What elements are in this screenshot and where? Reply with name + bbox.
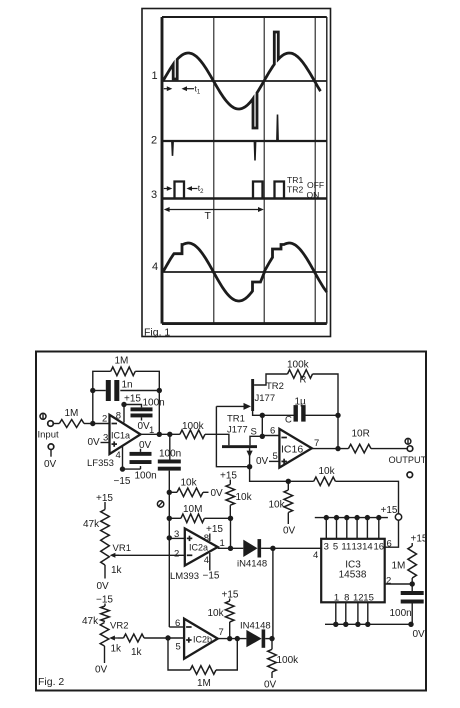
- timebase gridline 3: [314, 17, 316, 324]
- trace 3 pulse 3: [275, 182, 285, 198]
- svg-text:−15: −15: [203, 571, 220, 582]
- svg-text:Fig. 2: Fig. 2: [38, 676, 64, 688]
- svg-text:C: C: [285, 415, 292, 426]
- wire R to output rail: [313, 374, 339, 449]
- svg-text:J177: J177: [255, 393, 276, 404]
- svg-text:VR2: VR2: [110, 621, 128, 632]
- wire IC2b output: [218, 638, 247, 640]
- svg-text:6: 6: [270, 426, 275, 437]
- svg-text:100n: 100n: [390, 608, 412, 619]
- svg-text:5: 5: [333, 542, 338, 553]
- wire pin 3 (IC2a): [169, 537, 185, 539]
- node pin3 tap: [167, 535, 172, 540]
- node pin4: [120, 466, 125, 471]
- trace 3 pulse 2: [253, 182, 263, 198]
- wire pin 3: [101, 442, 110, 444]
- svg-text:0V: 0V: [256, 456, 269, 467]
- resistor 1k (series): [124, 634, 145, 642]
- plus sign IC1a: [112, 443, 118, 445]
- svg-text:Input: Input: [38, 430, 59, 441]
- node waveform marker (circled slash): [157, 501, 163, 507]
- svg-text:3: 3: [324, 542, 329, 553]
- TR2 source lead: [253, 411, 263, 415]
- svg-text:IC2b: IC2b: [193, 635, 212, 645]
- wire signal rail down: [168, 471, 170, 627]
- node RC: [410, 581, 415, 586]
- IC3 top pin labels 3 5 11 13 14 16: [324, 542, 384, 553]
- wire VR1 to 0V: [104, 565, 106, 579]
- svg-text:6: 6: [175, 618, 180, 629]
- wire +15 stub: [229, 480, 231, 485]
- capacitor 100n (pin4 decoupling): [130, 452, 152, 456]
- wire 1M feedback right leg: [216, 639, 237, 670]
- svg-text:0V: 0V: [97, 581, 110, 592]
- IC IC3 14538 box: [321, 539, 385, 603]
- svg-text:10k: 10k: [181, 478, 198, 489]
- capacitor 1n: [106, 380, 111, 401]
- potentiometer VR2: [100, 623, 109, 647]
- wire pin4 node to decoupling cap: [123, 468, 141, 470]
- svg-text:VR1: VR1: [113, 543, 131, 554]
- svg-text:1: 1: [334, 593, 339, 604]
- svg-text:0V: 0V: [283, 526, 296, 537]
- TR1 gate lead with arrow: [247, 448, 253, 467]
- trace 3 baseline: [162, 197, 327, 199]
- input waveform marker (circled 1): [40, 413, 46, 419]
- svg-text:10k: 10k: [208, 608, 225, 619]
- node pin5 (IC2b): [165, 635, 170, 640]
- node +15 pin8: [121, 402, 126, 407]
- wire pin 5 (IC16): [269, 460, 279, 462]
- op-amp IC16: [279, 429, 311, 468]
- svg-text:10R: 10R: [352, 429, 370, 440]
- svg-text:iN4148: iN4148: [237, 559, 267, 570]
- svg-text:1M: 1M: [115, 356, 129, 367]
- node pin2 junction: [90, 421, 95, 426]
- trace 2 spike b: [254, 142, 255, 161]
- resistor 100k R: [288, 370, 313, 379]
- svg-text:0V: 0V: [211, 488, 224, 499]
- svg-text:15: 15: [363, 593, 374, 604]
- resistor 10k (IC2b pullup): [225, 601, 234, 622]
- svg-text:47k: 47k: [82, 616, 99, 627]
- wire +15 stub (IC2b): [229, 599, 231, 602]
- node trigger: [270, 546, 275, 551]
- op-amp IC2b: [184, 619, 218, 659]
- svg-text:TR1: TR1: [287, 175, 303, 185]
- svg-text:IC1a: IC1a: [111, 431, 130, 441]
- VR2 wiper arrow: [109, 636, 118, 641]
- svg-text:2: 2: [174, 549, 179, 560]
- svg-text:1n: 1n: [122, 380, 133, 391]
- svg-text:0V: 0V: [264, 680, 277, 691]
- IC3 top supply rail: [315, 517, 388, 519]
- svg-text:1µ: 1µ: [295, 397, 307, 408]
- svg-text:+15: +15: [381, 505, 398, 516]
- node output coupling: [167, 432, 172, 437]
- diode IN4148 (IC2a): [243, 540, 257, 557]
- svg-text:1k: 1k: [111, 565, 123, 576]
- svg-text:1M: 1M: [197, 678, 211, 689]
- node 10M tap: [167, 516, 172, 521]
- svg-text:TR2: TR2: [266, 381, 284, 392]
- node C left: [260, 413, 265, 418]
- wire 10k to IC3 pin6: [335, 481, 398, 514]
- wire C leads: [262, 414, 293, 416]
- svg-text:4: 4: [116, 450, 121, 461]
- svg-text:J177: J177: [227, 425, 248, 436]
- timebase gridline 2: [263, 17, 265, 324]
- node pin6 (IC16): [260, 434, 265, 439]
- node 10k tap: [167, 490, 172, 495]
- node diode2 cathode: [269, 636, 274, 641]
- wire diode2 to node: [265, 638, 273, 640]
- wire gate node down to 10k run: [250, 467, 314, 482]
- minus sign IC2a: [187, 554, 193, 556]
- wire 100k to TR1 drain: [205, 434, 229, 445]
- svg-text:100k: 100k: [277, 655, 300, 666]
- node 10k pulldown tap: [286, 479, 291, 484]
- wire 100k to 0V: [271, 672, 273, 678]
- svg-text:4: 4: [152, 261, 158, 273]
- wire gate rail (TR2 gate to node): [216, 406, 249, 466]
- resistor 100k (IC1a out): [180, 430, 205, 439]
- resistor 1M (feedback): [111, 367, 136, 376]
- resistor 10M: [181, 514, 205, 523]
- wire +15 to 47k: [104, 502, 106, 510]
- svg-text:13: 13: [352, 542, 363, 553]
- svg-text:14: 14: [362, 542, 373, 553]
- wire diode to pin4 node: [261, 547, 321, 549]
- wire trigger node down: [272, 548, 274, 638]
- svg-text:1k: 1k: [111, 644, 123, 655]
- svg-text:4: 4: [204, 555, 209, 566]
- resistor 1M (IC3 timing): [408, 546, 417, 578]
- resistor 1M (IC2b feedback): [190, 666, 216, 675]
- wire pin 6 (IC16): [262, 435, 279, 437]
- trace 2 spike a: [172, 142, 173, 156]
- svg-text:+15: +15: [411, 534, 428, 545]
- node pullup (IC2b): [227, 636, 232, 641]
- wire 1M feedback left leg: [168, 638, 190, 670]
- svg-text:5: 5: [273, 451, 278, 462]
- node 1n right: [157, 388, 162, 393]
- svg-text:100n: 100n: [135, 471, 157, 482]
- t1 dimension arrows: [164, 86, 194, 91]
- resistor 10k (gate run): [314, 477, 336, 486]
- svg-text:+15: +15: [124, 394, 141, 405]
- wire pin 2 to RC node: [385, 583, 413, 585]
- svg-text:100k: 100k: [182, 421, 205, 432]
- wire +15 to 1M: [411, 543, 413, 546]
- svg-text:1: 1: [152, 70, 158, 82]
- node output feedback: [157, 432, 162, 437]
- svg-text:IC2a: IC2a: [189, 543, 208, 553]
- minus sign IC16: [281, 437, 287, 439]
- svg-text:14538: 14538: [339, 570, 367, 581]
- node IC2a output: [228, 546, 233, 551]
- svg-text:10k: 10k: [236, 492, 253, 503]
- trace 1 waveform: [163, 32, 321, 128]
- wire output pin1: [141, 433, 180, 435]
- svg-text:3: 3: [103, 433, 108, 444]
- IC3 bottom rail junctions: [333, 622, 370, 627]
- wire cap top to 0V: [140, 449, 142, 452]
- plus sign IC16: [281, 460, 287, 462]
- wire 10k to 0V (below IC16): [287, 513, 289, 525]
- wire cap to 0V stub: [141, 418, 143, 421]
- wire IC2a output: [218, 547, 244, 549]
- svg-text:16: 16: [374, 542, 385, 553]
- IC3 bottom pin stubs: [336, 602, 368, 624]
- VR1 wiper arrow: [110, 553, 119, 558]
- svg-text:47k: 47k: [83, 519, 100, 530]
- svg-text:T: T: [205, 210, 212, 222]
- wire feedback right rail: [135, 371, 159, 434]
- wire 10R to output terminal: [371, 448, 407, 450]
- IC3 top rail junctions: [324, 515, 382, 520]
- svg-text:8: 8: [344, 593, 349, 604]
- node gate drive: [247, 464, 252, 469]
- resistor 47k (VR1): [101, 510, 110, 538]
- wire node to 10k (below IC16): [287, 481, 289, 490]
- op-amp IC2a: [185, 529, 218, 566]
- capacitor 100n (pin8 decoupling): [131, 407, 153, 411]
- svg-text:0V: 0V: [413, 629, 426, 640]
- node C right: [335, 413, 340, 418]
- resistor 10k (IC2a pullup): [226, 484, 235, 505]
- capacitor 100n (coupling): [158, 460, 181, 464]
- svg-text:7: 7: [314, 438, 319, 449]
- svg-text:OFF: OFF: [307, 180, 324, 190]
- op-amp IC1a: [110, 415, 141, 454]
- wire pin 4 stub (IC2a): [209, 553, 211, 571]
- svg-text:4: 4: [313, 550, 318, 561]
- IC3 bottom pin labels 1 8 12 15: [334, 593, 374, 604]
- svg-text:1M: 1M: [65, 408, 79, 419]
- 0V output terminal: [407, 472, 413, 478]
- svg-text:10M: 10M: [183, 504, 202, 515]
- svg-text:Fig. 1: Fig. 1: [144, 327, 170, 339]
- node 1M feedback tap: [235, 636, 240, 641]
- wire -15 to 47k: [104, 604, 106, 607]
- wire 1M to pin2 node: [84, 423, 93, 425]
- TR1 source lead: [250, 436, 262, 445]
- resistor 47k (VR2): [101, 606, 110, 622]
- transistor TR1 channel bar: [222, 445, 257, 448]
- wire coupling cap top: [169, 434, 171, 459]
- svg-text:2: 2: [386, 576, 391, 587]
- svg-text:LM393: LM393: [170, 571, 199, 582]
- TR2 drain lead: [254, 374, 287, 385]
- plus sign IC2b: [186, 639, 192, 641]
- svg-text:8: 8: [204, 533, 209, 544]
- svg-text:OUTPUT: OUTPUT: [389, 455, 427, 465]
- wire +15 to pin 8: [123, 405, 125, 423]
- node 1n left: [90, 388, 95, 393]
- link circle on pin6 line: [395, 514, 401, 520]
- wire feedback left rail: [93, 371, 111, 423]
- node cap 0V: [408, 622, 413, 627]
- wire pin 4 to -15: [122, 446, 124, 469]
- svg-text:12: 12: [353, 593, 364, 604]
- wire +15 to decoupling cap: [124, 405, 142, 408]
- svg-text:10k: 10k: [269, 500, 286, 511]
- IC3 top pin stubs: [326, 518, 379, 539]
- trace 4 baseline: [162, 271, 327, 273]
- svg-text:7: 7: [219, 627, 224, 638]
- svg-text:LF353: LF353: [87, 458, 114, 469]
- wire 10M to node: [204, 517, 230, 519]
- Fig.1 plot box: [162, 17, 327, 324]
- wire C node to pin6 node: [261, 415, 263, 436]
- svg-text:TR2: TR2: [287, 185, 303, 195]
- timebase gridline 1: [213, 17, 215, 324]
- wire 0V terminal stub: [50, 450, 52, 457]
- wire pin 2: [93, 423, 110, 425]
- wire 1n cap leads: [93, 390, 106, 392]
- svg-text:100n: 100n: [143, 398, 165, 409]
- wire pullup to node: [229, 505, 231, 518]
- t2 dimension arrows: [164, 186, 198, 191]
- svg-text:11: 11: [341, 542, 351, 553]
- wire cap to 0V rail: [411, 604, 413, 625]
- 0V input terminal: [48, 444, 54, 450]
- wire pullup to output (IC2b): [229, 622, 231, 639]
- svg-text:−15: −15: [114, 476, 131, 487]
- svg-text:6: 6: [387, 539, 392, 550]
- IC3 bottom 0V rail: [325, 623, 411, 625]
- svg-text:1k: 1k: [131, 647, 143, 658]
- svg-text:0V: 0V: [139, 440, 152, 451]
- Input terminal: [48, 421, 54, 427]
- svg-text:3: 3: [174, 529, 179, 540]
- wire node to IC2a output: [230, 518, 232, 548]
- trace 4 waveform: [163, 243, 327, 301]
- TR2 gate lead with arrow: [216, 403, 251, 410]
- resistor 100k (pulldown): [271, 639, 273, 650]
- trace 2 spike c: [277, 115, 278, 141]
- trace 1 baseline: [162, 80, 327, 82]
- resistor 10k (to 0V): [177, 488, 203, 497]
- output waveform marker (circled): [405, 438, 411, 444]
- svg-text:2: 2: [102, 414, 107, 425]
- wire pin 8 stub (IC2a): [209, 534, 211, 542]
- OUTPUT terminal: [407, 446, 413, 452]
- svg-text:2: 2: [151, 135, 157, 147]
- svg-text:0V: 0V: [44, 459, 57, 470]
- wire pin 6 (IC2b): [169, 626, 184, 628]
- svg-text:1M: 1M: [392, 561, 406, 572]
- diode IN4148 (IC2b): [246, 630, 261, 647]
- wire 10k to 0V: [203, 491, 209, 493]
- wire IC16 output: [312, 448, 349, 450]
- svg-text:0V: 0V: [88, 437, 101, 448]
- svg-text:ON: ON: [307, 190, 320, 200]
- trace 2 baseline: [162, 140, 327, 142]
- svg-text:100n: 100n: [159, 449, 181, 460]
- wire pin 2 (IC2a) from VR1: [112, 554, 185, 556]
- Fig.1 outer frame: [142, 9, 331, 337]
- node IC16 output: [335, 446, 340, 451]
- svg-text:10k: 10k: [319, 466, 336, 477]
- trace 3 pulse 1: [175, 182, 185, 198]
- wire 1k to pin5 node: [144, 637, 184, 639]
- potentiometer VR1: [101, 538, 110, 566]
- resistor 10k (below IC16): [284, 490, 293, 513]
- svg-text:IN4148: IN4148: [240, 621, 271, 632]
- minus sign IC2b: [186, 626, 192, 628]
- transistor TR2 channel bar: [251, 379, 254, 411]
- svg-text:0V: 0V: [95, 665, 108, 676]
- plus sign IC2a: [187, 537, 193, 539]
- svg-text:+15: +15: [220, 471, 237, 482]
- T dimension arrow: [164, 207, 264, 212]
- svg-text:1: 1: [220, 538, 225, 549]
- Fig.2 outer frame: [36, 352, 426, 691]
- wire wiper to 1k: [118, 637, 124, 639]
- resistor 10R: [348, 444, 371, 453]
- svg-text:3: 3: [151, 189, 157, 201]
- svg-text:IC16: IC16: [281, 444, 303, 456]
- svg-text:5: 5: [176, 642, 181, 653]
- resistor 1M (input): [59, 420, 84, 428]
- minus sign IC1a: [112, 423, 118, 425]
- svg-text:TR1: TR1: [227, 414, 245, 425]
- svg-text:100k: 100k: [287, 360, 310, 371]
- wire VR2 to 0V: [104, 646, 106, 663]
- capacitor 100n (IC3 timing): [401, 591, 424, 595]
- capacitor 1u C: [294, 405, 298, 422]
- node 10M/pullup: [228, 516, 233, 521]
- wire input to R 1M: [53, 423, 59, 425]
- svg-text:R: R: [300, 375, 307, 386]
